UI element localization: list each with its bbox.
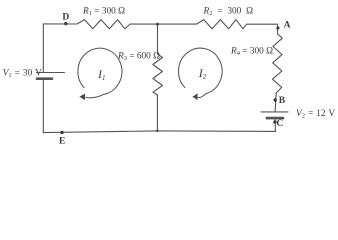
node B junction dot (274, 98, 277, 101)
battery V2 short plate (267, 117, 283, 120)
wire left branch lower (42, 79, 44, 133)
svg-text:A: A (284, 20, 291, 30)
svg-text:R1 = 300 Ω: R1 = 300 Ω (82, 7, 125, 18)
svg-text:R4 = 300 Ω: R4 = 300 Ω (230, 47, 273, 58)
wire top with resistors R1 R2 (43, 20, 277, 29)
battery V2 long plate (261, 111, 288, 113)
wire middle branch upper (157, 24, 159, 54)
wire right branch upper (277, 24, 279, 34)
svg-text:B: B (279, 96, 286, 106)
wire middle branch lower (156, 95, 158, 131)
wire right branch lower (274, 118, 276, 131)
wire right branch mid (275, 93, 276, 112)
node junction dot bottom middle (156, 130, 158, 132)
node A junction dot (276, 26, 279, 29)
svg-text:R3 = 600 Ω: R3 = 600 Ω (117, 52, 160, 63)
node junction dot top middle (156, 23, 159, 26)
node D junction dot (64, 22, 67, 25)
resistor R3 zigzag (153, 54, 163, 95)
battery V1 short plate (37, 77, 52, 80)
mesh current I2 loop arrow (179, 48, 223, 97)
svg-text:E: E (59, 137, 65, 147)
svg-text:C: C (276, 119, 283, 129)
node E junction dot (60, 131, 63, 134)
node C junction dot (273, 120, 276, 123)
mesh current I1 loop arrow (78, 48, 122, 98)
battery V1 long plate (37, 72, 65, 74)
svg-text:D: D (62, 13, 69, 23)
wire bottom (43, 131, 275, 133)
wire left branch upper (42, 24, 44, 73)
resistor R4 zigzag (273, 34, 283, 93)
